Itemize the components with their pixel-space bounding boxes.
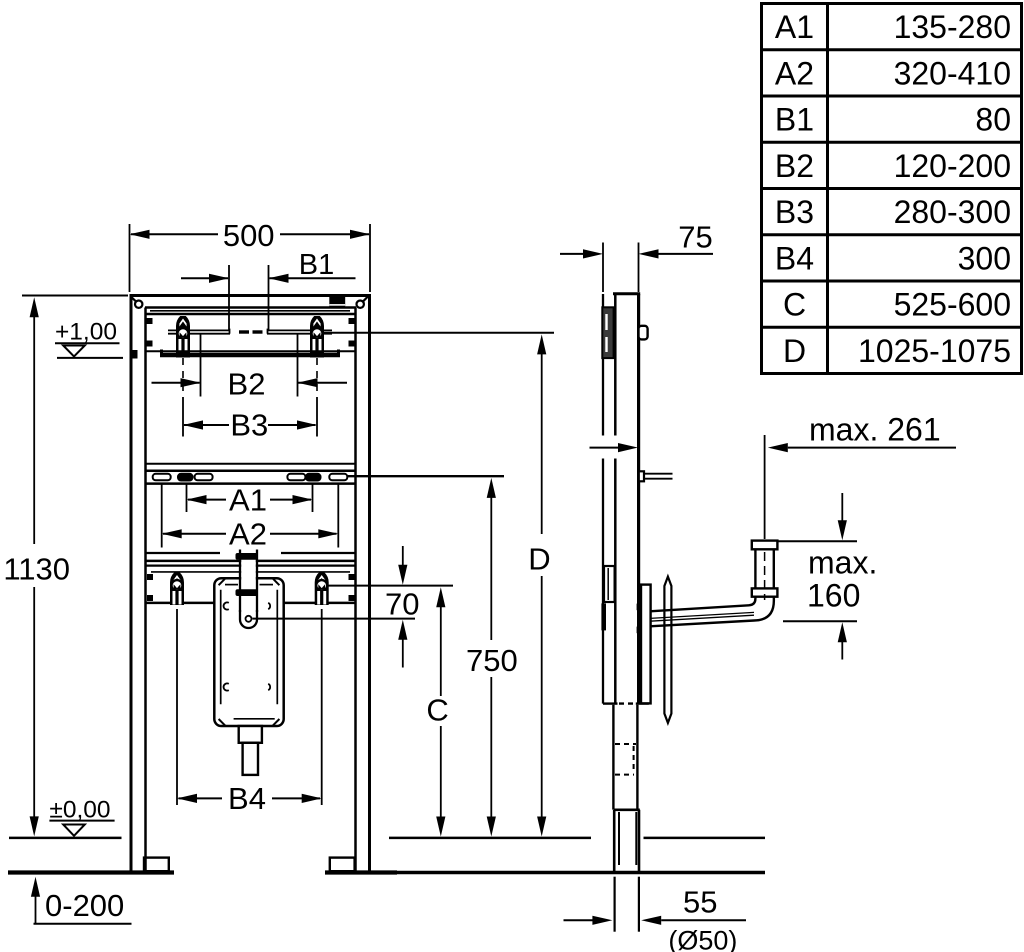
svg-text:135-280: 135-280 bbox=[894, 9, 1011, 45]
svg-text:B2: B2 bbox=[775, 148, 814, 184]
svg-text:D: D bbox=[528, 542, 550, 577]
svg-text:300: 300 bbox=[958, 240, 1011, 276]
svg-text:B3: B3 bbox=[775, 194, 814, 230]
svg-text:160: 160 bbox=[807, 578, 860, 614]
svg-text:1130: 1130 bbox=[3, 552, 70, 587]
svg-text:B4: B4 bbox=[775, 240, 814, 276]
svg-text:1025-1075: 1025-1075 bbox=[858, 333, 1011, 369]
svg-text:525-600: 525-600 bbox=[894, 287, 1011, 323]
svg-text:80: 80 bbox=[975, 102, 1011, 138]
svg-text:B2: B2 bbox=[228, 367, 266, 402]
svg-text:55: 55 bbox=[683, 885, 717, 920]
svg-text:A1: A1 bbox=[775, 9, 814, 45]
svg-text:320-410: 320-410 bbox=[894, 55, 1011, 91]
svg-text:120-200: 120-200 bbox=[894, 148, 1011, 184]
svg-text:A1: A1 bbox=[229, 483, 267, 518]
svg-text:D: D bbox=[783, 333, 806, 369]
svg-text:0-200: 0-200 bbox=[45, 888, 124, 923]
svg-text:280-300: 280-300 bbox=[894, 194, 1011, 230]
svg-text:B4: B4 bbox=[228, 781, 266, 816]
svg-text:C: C bbox=[783, 287, 806, 323]
svg-text:(Ø50): (Ø50) bbox=[668, 926, 737, 952]
svg-text:75: 75 bbox=[678, 220, 712, 255]
svg-text:C: C bbox=[426, 693, 448, 728]
svg-text:max. 261: max. 261 bbox=[809, 412, 941, 448]
svg-text:500: 500 bbox=[223, 218, 275, 253]
svg-text:B1: B1 bbox=[775, 102, 814, 138]
svg-text:750: 750 bbox=[466, 643, 518, 678]
svg-text:max.: max. bbox=[808, 545, 877, 581]
svg-text:A2: A2 bbox=[775, 55, 814, 91]
svg-text:±0,00: ±0,00 bbox=[49, 797, 110, 824]
svg-text:A2: A2 bbox=[229, 517, 267, 552]
svg-text:B3: B3 bbox=[230, 408, 268, 443]
svg-text:70: 70 bbox=[385, 587, 419, 622]
svg-text:B1: B1 bbox=[299, 249, 334, 281]
svg-text:+1,00: +1,00 bbox=[55, 319, 117, 346]
